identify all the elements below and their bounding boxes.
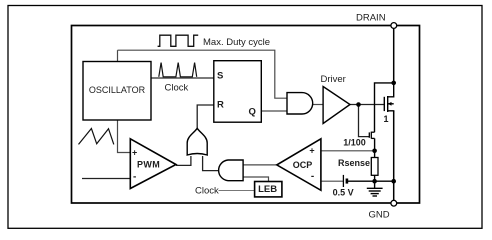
wire: main MOSFET source down to ground rail and GND pin [393,111,395,201]
junction: Rsense ground node [372,179,377,184]
junction: source ground node [391,179,396,184]
svg-text:PWM: PWM [137,159,160,169]
wire: ground rail from battery to source line [348,180,394,182]
svg-text:Max. Duty cycle: Max. Duty cycle [203,37,270,48]
waveform: max duty square wave [158,35,199,46]
MOSFET Q1 (main SenseFET) [384,83,393,112]
SR latch U1 [214,61,261,122]
MOSFET Q1 body arrow [388,102,392,106]
AND gate G3 (bottom, pointing left) [219,160,243,181]
svg-text:DRAIN: DRAIN [356,13,386,24]
svg-text:LEB: LEB [258,184,277,195]
IC boundary box [72,26,420,204]
junction: drain node [391,81,396,86]
wire: AND2 top input from OCP output [243,164,277,166]
svg-text:+: + [132,148,137,158]
wire: driver output to MOSFET gate [350,104,384,106]
wire: max duty cycle line to AND1 top input [118,50,288,98]
wire: PWM output to OR gate left input [176,156,191,165]
svg-text:+: + [309,146,314,156]
wire: sense FET source down through node to Rsense [374,138,376,157]
wire: oscillator bottom riser to PWM + input [118,120,131,153]
wire: DRAIN pin down to drain node [393,28,395,83]
svg-text:Q: Q [249,107,256,118]
sense FET (1/100) [369,132,374,139]
wire: oscillator top riser [117,50,119,61]
svg-text:Driver: Driver [321,74,346,85]
wire: latch Q output to AND1 bottom input [261,110,287,112]
svg-text:-: - [133,172,136,183]
OCP comparator (pointing left) [277,139,321,191]
wire: AND2 bottom input from LEB [243,177,268,182]
AND gate G1 (top) [287,93,313,114]
resistor Rsense [371,158,378,176]
svg-text:OCP: OCP [293,160,313,170]
svg-text:GND: GND [369,209,390,220]
PWM comparator [130,139,176,189]
driver buffer [323,87,350,124]
waveform: clock spikes [159,63,197,77]
wire: OCP + input from sense node [321,150,375,152]
wire: OCP - input from 0.5V reference [321,180,343,182]
svg-text:0.5 V: 0.5 V [333,188,354,198]
battery V1 0.5V [342,175,344,187]
junction: sense node [372,149,377,154]
svg-text:Clock: Clock [195,185,219,196]
wire: Clock label to LEB input [219,190,255,192]
svg-text:Rsense: Rsense [338,158,370,168]
wire: AND2 output to OR gate right input [203,156,218,171]
LEB block [255,182,282,197]
wire: OR gate output to latch R input [197,105,214,128]
junction: gate node [356,102,361,107]
wire: Rsense bottom to ground rail [374,175,376,181]
svg-text:1: 1 [384,114,389,124]
oscillator block [83,62,151,121]
pin DRAIN [391,23,397,29]
OR gate G2 [187,128,207,155]
svg-text:1/100: 1/100 [343,138,366,148]
wire: AND1 output to driver input [313,104,323,106]
svg-text:Clock: Clock [165,83,189,94]
wire: drain node branch to sense FET drain [375,83,394,132]
svg-text:R: R [217,100,224,111]
svg-text:S: S [217,71,223,82]
wire: clock to S input [151,77,214,79]
wire: gate branch down to sense FET gate [359,105,370,137]
ground [367,181,383,196]
svg-text:-: - [311,171,314,182]
wire: PWM - input (feedback) [82,178,130,180]
pin GND [391,200,397,206]
svg-text:OSCILLATOR: OSCILLATOR [89,85,146,95]
waveform: sawtooth [79,129,114,145]
